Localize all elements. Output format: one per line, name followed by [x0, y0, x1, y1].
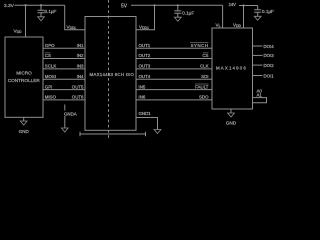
wire VL drop	[222, 5, 224, 28]
wire VDD drop to MAX14906	[243, 6, 245, 29]
svg-text:3.3V: 3.3V	[4, 3, 15, 9]
wire 3.3V rail	[15, 4, 65, 6]
svg-text:OUT6: OUT6	[72, 95, 84, 100]
svg-text:VDDL: VDDL	[67, 25, 77, 31]
wire C1 to ground	[40, 13, 42, 17]
svg-text:0.1μF: 0.1μF	[262, 9, 274, 14]
wire GNDA lower stub	[64, 116, 66, 128]
svg-text:0.1μF: 0.1μF	[182, 10, 194, 15]
wire C3 to ground	[257, 12, 259, 16]
ground under microcontroller	[20, 121, 27, 125]
svg-text:GPO: GPO	[45, 43, 55, 48]
svg-text:GND: GND	[19, 129, 30, 134]
svg-text:OUT5: OUT5	[72, 84, 84, 89]
wire SPI row4 MOSI to IN4	[43, 78, 85, 80]
svg-text:CS: CS	[45, 53, 51, 58]
svg-text:DOI1: DOI1	[264, 73, 275, 78]
svg-text:IN6: IN6	[139, 95, 146, 100]
node junction C1	[40, 4, 42, 6]
svg-text:GND: GND	[226, 121, 237, 126]
overline CS (MAX14906)	[203, 52, 209, 54]
svg-text:MISO: MISO	[45, 95, 57, 100]
svg-text:VDD: VDD	[233, 22, 242, 28]
wire row5 IN5 to FAULT	[136, 89, 212, 91]
capacitor C1 0.1uF stem	[40, 5, 42, 10]
svg-text:IN3: IN3	[77, 64, 84, 69]
svg-text:5V: 5V	[121, 3, 128, 9]
MAX14906 U3 box	[212, 28, 253, 109]
svg-text:OUT4: OUT4	[139, 74, 151, 79]
svg-text:IN5: IN5	[139, 84, 146, 89]
svg-text:OUT1: OUT1	[139, 43, 151, 48]
pin DOI4 stub	[253, 45, 263, 47]
wire A0 A1 tie-down	[253, 98, 267, 103]
wire microcontroller ground stem	[23, 117, 25, 121]
svg-text:MICRO: MICRO	[16, 71, 32, 76]
wire C2 to ground	[177, 13, 179, 17]
isolation dimension bracket	[80, 132, 146, 136]
svg-text:SDI: SDI	[201, 74, 208, 79]
node junction VDD1 drop	[153, 4, 155, 6]
wire SPI row5 GPI to OUT5	[43, 89, 85, 91]
svg-text:VDD: VDD	[14, 29, 23, 35]
svg-text:0.1μF: 0.1μF	[45, 9, 57, 14]
svg-text:SDO: SDO	[199, 95, 209, 100]
node junction C2	[177, 4, 179, 6]
digital isolator U2 box	[85, 17, 136, 131]
wire VDD1 supply L-wire	[136, 5, 155, 30]
pin DOI3 stub	[253, 54, 263, 56]
svg-text:CS: CS	[202, 53, 208, 58]
wire row1 OUT1 to SYNCH	[136, 47, 212, 49]
wire VDD drop to microcontroller	[25, 5, 27, 37]
svg-text:IN2: IN2	[77, 53, 84, 58]
svg-text:DOI2: DOI2	[264, 63, 275, 68]
wire SPI row3 SCLK to IN3	[43, 68, 85, 70]
wire GND1 stub (isolator right)	[136, 118, 158, 130]
ground under C1	[38, 17, 45, 21]
wire SPI row2 CS to IN2	[43, 58, 85, 60]
svg-text:24V: 24V	[229, 2, 237, 7]
ground GNDA	[61, 128, 68, 132]
capacitor C1 plates	[38, 10, 45, 12]
node junction VDD drop	[24, 4, 26, 6]
ground under MAX14906	[228, 113, 235, 117]
wire row3 OUT3 to CLK	[136, 68, 212, 70]
pin DOI1 stub	[253, 75, 263, 77]
wire 24V rail	[239, 5, 258, 7]
svg-text:CONTROLLER: CONTROLLER	[8, 78, 41, 83]
ground under C2	[174, 17, 181, 21]
svg-text:IN1: IN1	[77, 43, 84, 48]
wire row4 OUT4 to SDI	[136, 78, 212, 80]
svg-text:VL: VL	[216, 22, 221, 28]
ground GND1	[154, 130, 161, 134]
wire GNDA upper stub	[64, 105, 66, 111]
svg-text:MOSI: MOSI	[45, 74, 56, 79]
svg-text:SCLK: SCLK	[45, 64, 57, 69]
capacitor C3 0.1uF stem	[257, 6, 259, 10]
capacitor C3 plates	[254, 10, 261, 12]
svg-text:GPI: GPI	[45, 84, 53, 89]
isolation barrier dashed line	[108, 0, 110, 139]
svg-text:GNDA: GNDA	[64, 111, 77, 116]
svg-text:DOI4: DOI4	[264, 44, 275, 49]
svg-text:MAX14483 6CH ISO: MAX14483 6CH ISO	[90, 72, 135, 77]
svg-text:GND1: GND1	[139, 111, 152, 116]
wire row6 IN6 to SDO	[136, 99, 212, 101]
svg-text:MAX14906: MAX14906	[216, 66, 247, 71]
svg-text:CLK: CLK	[200, 64, 209, 69]
wire row2 OUT2 to CS	[136, 58, 212, 60]
svg-text:FAULT: FAULT	[195, 84, 209, 89]
overline CS (microcontroller)	[45, 52, 50, 54]
svg-text:OUT3: OUT3	[139, 64, 151, 69]
overline SYNCH	[190, 42, 209, 44]
microcontroller U1 box	[5, 37, 43, 117]
svg-text:OUT2: OUT2	[139, 53, 151, 58]
overline FAULT	[195, 83, 209, 85]
svg-text:SYNCH: SYNCH	[191, 43, 209, 48]
wire 5V rail	[131, 4, 223, 6]
svg-text:IN4: IN4	[77, 74, 84, 79]
svg-text:VDD1: VDD1	[139, 25, 149, 31]
svg-text:DOI3: DOI3	[264, 53, 275, 58]
node junction VDD drop (MAX14906)	[242, 4, 244, 6]
capacitor C2 0.1uF stem	[177, 5, 179, 10]
wire VDDL supply L-wire	[65, 5, 85, 30]
wire SPI row6 MISO to OUT6	[43, 99, 85, 101]
pin DOI2 stub	[253, 64, 263, 66]
wire MAX14906 ground stem	[230, 109, 232, 113]
capacitor C2 plates	[174, 11, 181, 13]
svg-text:A1: A1	[257, 93, 263, 98]
ground under C3	[254, 16, 261, 20]
wire SPI row1 GPO to IN1	[43, 47, 85, 49]
